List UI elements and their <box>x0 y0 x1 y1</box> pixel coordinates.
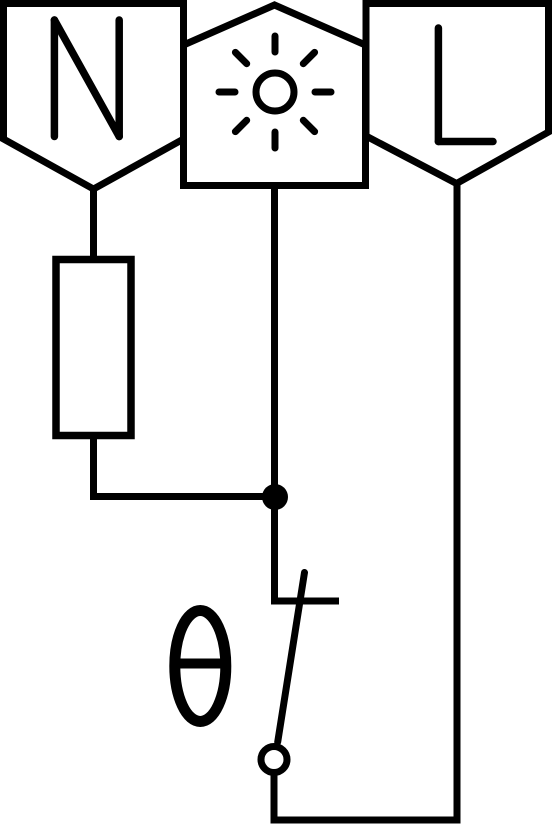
terminal L box <box>366 4 549 184</box>
terminal N box <box>4 4 184 190</box>
switch blade <box>278 573 305 743</box>
terminal lamp box <box>184 5 366 186</box>
lamp symbol circle <box>256 73 294 111</box>
wire lamp terminal down to switch contact <box>275 185 340 601</box>
label N <box>54 20 119 137</box>
lamp symbol rays <box>219 36 331 148</box>
label L <box>438 28 493 142</box>
theta crossbar <box>179 659 222 669</box>
resistor R <box>56 260 131 436</box>
thermostat theta symbol <box>175 611 226 722</box>
wire switch to bottom to L terminal <box>274 185 457 820</box>
wire resistor to junction <box>94 435 273 497</box>
junction node <box>262 484 288 510</box>
switch contact circle <box>261 747 287 773</box>
wire N terminal to resistor <box>90 186 97 259</box>
